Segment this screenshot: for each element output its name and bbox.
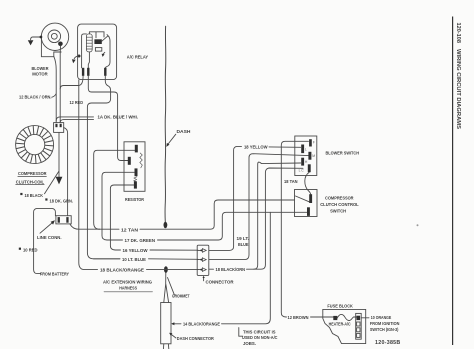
ground (relay) [72,56,79,63]
relay coil core (black) [94,39,101,44]
wire 18 BLACK to ground [58,133,60,177]
label 12 BLACK / ORN. with leader [19,94,56,101]
label 18 DK. GRN. with bullet [45,198,73,204]
resistor terminal 2 [128,157,131,165]
fuse element wavy [337,314,356,320]
svg-text:19 LT.: 19 LT. [237,236,250,242]
arrowhead to dash connector [171,322,174,325]
svg-text:18 DK. GRN.: 18 DK. GRN. [50,199,74,205]
wires below dash connector [163,344,168,349]
svg-text:12 BROWN: 12 BROWN [288,315,309,321]
resistor terminal 1 [135,145,138,153]
svg-text:L: L [305,148,307,152]
svg-text:CLUTCH CONTROL: CLUTCH CONTROL [320,202,359,208]
svg-text:SWITCH (IGN-3): SWITCH (IGN-3) [370,327,399,333]
dash line (upper segment) [164,26,167,222]
svg-text:A/C RELAY: A/C RELAY [127,55,149,61]
compressor switch terminal (bottom) [307,207,310,216]
blower switch terminal H [301,158,308,166]
wire: line connector to 12 TAN bus [70,224,100,229]
blower switch terminal M [308,152,315,160]
svg-text:L C: L C [299,169,305,173]
wire 18 TAN: LC to compressor switch [305,172,311,194]
svg-text:120-385B: 120-385B [375,340,401,346]
fuse block outline [323,309,366,343]
connector arrow 2 [198,258,207,262]
resistor R1 box [124,142,145,192]
line connector box [56,216,71,224]
svg-text:12 BLACK / ORN.: 12 BLACK / ORN. [19,95,52,101]
label 19 LT. BLUE [237,236,250,248]
svg-text:M: M [312,154,315,158]
svg-text:HARNESS: HARNESS [119,285,137,291]
svg-text:12 RED: 12 RED [70,100,84,106]
label CONNECTOR with leader [203,276,234,286]
note THIS CIRCUIT IS USED ON NON-A/C JOBS [239,328,278,347]
ground (blower motor) [28,36,43,46]
svg-text:FUSE BLOCK: FUSE BLOCK [327,304,353,310]
wire: relay terminal 2 to resistor terminal 2 [88,76,128,161]
compressor clutch control switch box S2 [295,190,318,217]
svg-text:SWITCH: SWITCH [330,208,346,214]
wire 12 RED / 18 BLACK-ORANGE: relay down left side to bus [79,80,98,270]
compressor switch terminal (top) [309,194,312,203]
svg-text:THIS CIRCUIT IS: THIS CIRCUIT IS [243,329,276,335]
wire: relay terminal 1 to blower motor feed [60,76,83,89]
wire: blower motor to coil connector (left) [54,57,56,123]
resistor element 2 zigzag [134,177,137,182]
blower switch terminal L [301,145,307,154]
wire: coil connector to 1A DK BLUE/WHI (upper) [56,117,93,121]
fuse (HEATER-A/C) [333,316,337,320]
bus 12 TAN [100,200,295,233]
svg-text:10 RED: 10 RED [23,248,38,254]
coil connector box [54,123,64,133]
relay terminal 2 [87,68,89,76]
relay internal wire left [82,34,87,68]
svg-text:18 BLACK/ORN: 18 BLACK/ORN [216,267,246,273]
svg-text:DASH: DASH [177,129,191,135]
dash line (lower segment) [164,273,169,303]
label A/C EXTENSION WIRING HARNESS [103,280,153,292]
bus 16 YELLOW [116,146,301,254]
blower switch terminal F [309,139,315,146]
resistor terminal 4 [134,181,137,188]
wire 14 BLACK/ORANGE riser from compressor circuit [172,212,270,323]
svg-text:CONNECTOR: CONNECTOR [206,280,234,286]
svg-text:17 DK. GREEN: 17 DK. GREEN [125,238,156,244]
wire: resistor terminal 1 to 12 TAN bus [94,150,135,229]
svg-text:DASH CONNECTOR: DASH CONNECTOR [177,336,214,342]
relay contact arm [102,35,109,42]
wire: resistor terminal 4 to 16 YELLOW bus [110,185,133,250]
riser 18 BLACK/ORN to blower switch H [254,162,301,269]
blower switch box S1 [295,136,317,176]
wire: F terminal feed from fuse (12 BROWN riser) [281,141,333,317]
resistor terminal 3 [135,168,138,176]
svg-text:HEATER-A/C: HEATER-A/C [329,322,351,328]
connector arrow 3 [198,268,207,272]
svg-text:MOTOR: MOTOR [32,71,48,77]
bus 17 DK. GREEN [107,212,307,244]
svg-text:WIRING CIRCUIT DIAGRAMS: WIRING CIRCUIT DIAGRAMS [455,49,461,129]
compressor switch contact diagonal [296,196,310,202]
svg-text:FROM BATTERY: FROM BATTERY [40,272,70,278]
label DASH with arrow [166,129,191,147]
svg-text:18 TAN: 18 TAN [284,179,298,185]
resistor element 1 zigzag [140,153,143,168]
svg-text:120-108: 120-108 [455,23,461,44]
svg-text:BLOWER: BLOWER [32,66,49,72]
label LINE CONN. with arrow [37,220,62,241]
svg-text:BLUE: BLUE [238,242,249,248]
relay internal wire coil to terminal [88,52,89,68]
grommet dot 2 (dash at 18 BLK/ORN) [164,266,168,273]
relay internal wire right [105,36,110,68]
bus 10 LT. BLUE [94,154,309,263]
svg-text:18 YELLOW: 18 YELLOW [244,145,268,151]
wire: resistor terminal 3 to 17 DK GREEN bus [102,172,135,240]
wire: coil connector to 1A DK BLUE/WHI (lower) [60,120,93,123]
svg-text:16 YELLOW: 16 YELLOW [123,248,148,254]
svg-text:18 BLACK/ORANGE: 18 BLACK/ORANGE [100,268,145,274]
svg-text:GROMMET: GROMMET [172,294,190,300]
fuse block terminal strip [356,313,362,339]
svg-text:USED ON NON-A/C: USED ON NON-A/C [242,335,278,341]
relay ground junction dot [78,55,81,58]
label COMPRESSOR CLUTCH-COIL [16,171,47,185]
svg-text:14 BLACK/ORANGE: 14 BLACK/ORANGE [183,322,221,328]
blower motor M1 [41,23,68,57]
speck artifact [417,224,419,226]
svg-text:1A DK. BLUE / WHI.: 1A DK. BLUE / WHI. [98,115,139,121]
compressor clutch coil L1 [16,126,54,164]
relay contact arrow [102,52,105,57]
relay terminal 3 [104,68,106,76]
svg-text:BLOWER SWITCH: BLOWER SWITCH [326,150,360,156]
relay terminal 1 [82,68,84,76]
svg-text:10 ORANGE: 10 ORANGE [371,315,392,321]
svg-text:10 LT. BLUE: 10 LT. BLUE [122,257,147,263]
label COMPRESSOR CLUTCH CONTROL SWITCH [320,195,359,214]
svg-text:FROM IGNITION: FROM IGNITION [370,321,400,327]
bus 18 BLACK/ORANGE [100,168,303,274]
leader to 10 ORANGE label [361,317,369,319]
label BLOWER MOTOR [32,66,49,77]
label DASH CONNECTOR with leader [169,333,214,342]
relay coil resistor zigzag [86,34,92,52]
harness connector box [197,245,209,275]
ground (compressor coil) [56,177,63,185]
wire 18 DK GRN: coil connector to line connector [64,128,68,216]
label GROMMET with leader [168,278,190,300]
wire: blower motor to coil connector (right) [59,46,61,123]
wire: relay terminal 3 to 10 LT BLUE bus [87,76,120,259]
A/C relay box U1 [78,24,117,80]
svg-text:12 TAN: 12 TAN [121,227,138,233]
sidebar rule line [452,17,454,346]
svg-text:LINE CONN.: LINE CONN. [37,235,62,241]
label 18 BLACK with bullet and leader [20,172,58,200]
blower switch terminal LC [299,164,311,172]
wire from battery to line connector [34,208,56,273]
label 10 ORANGE FROM IGNITION SWITCH (IGN-3) [370,315,400,333]
svg-text:H: H [305,160,308,164]
svg-text:A/C EXTENSION WIRING: A/C EXTENSION WIRING [103,280,152,286]
grommet dot 1 (dash at 12 TAN) [164,222,168,228]
relay internal wire top loop [89,32,104,38]
svg-text:18 BLACK: 18 BLACK [25,193,44,199]
svg-text:F: F [313,141,315,145]
dash connector box [161,303,171,344]
label 10 RED with bullet [19,248,38,254]
svg-text:RESISTOR: RESISTOR [125,197,144,203]
connector arrow 1 [198,249,207,253]
svg-text:COMPRESSOR: COMPRESSOR [325,195,354,201]
svg-text:JOBS.: JOBS. [243,341,257,347]
relay fixed contact element [95,48,101,52]
